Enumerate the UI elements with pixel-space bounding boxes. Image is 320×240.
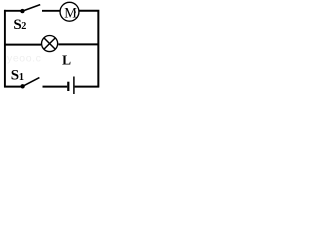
wire top-left segment <box>4 10 21 12</box>
switch S1 blade (open) <box>23 78 40 87</box>
svg-text:S: S <box>11 67 19 83</box>
wire middle-right segment <box>58 43 98 45</box>
lamp X stroke 1 <box>44 38 55 49</box>
svg-text:M: M <box>64 5 77 21</box>
wire middle-left segment <box>4 44 41 46</box>
wire top-right and right side <box>79 11 98 88</box>
switch S1 pivot junction <box>20 84 24 88</box>
battery positive plate (long) <box>73 77 75 95</box>
wire bottom-left segment <box>4 86 21 88</box>
lamp L circle <box>42 36 58 52</box>
background <box>0 0 103 94</box>
switch S2 pivot junction <box>20 9 24 13</box>
wire bottom middle segment <box>43 86 68 88</box>
svg-text:2: 2 <box>21 21 26 32</box>
wire top middle segment <box>42 10 60 12</box>
svg-text:L: L <box>62 52 71 67</box>
switch S2 blade (open) <box>22 5 40 12</box>
battery negative plate (short) <box>67 82 69 91</box>
wire bottom-right segment <box>75 86 99 88</box>
svg-text:yeoo.c: yeoo.c <box>7 53 42 65</box>
svg-text:1: 1 <box>19 72 24 83</box>
motor U1 circle <box>60 2 79 21</box>
wire left side <box>4 10 6 88</box>
lamp X stroke 2 <box>44 38 55 49</box>
motor small mark <box>74 11 76 14</box>
